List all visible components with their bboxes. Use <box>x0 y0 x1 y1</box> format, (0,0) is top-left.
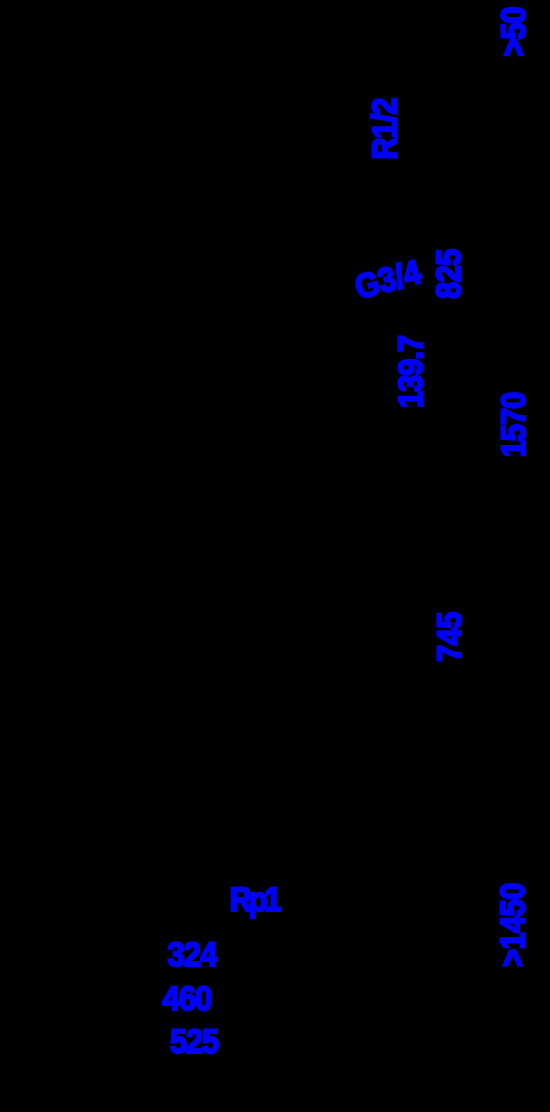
dimension label 825 (vertical) <box>432 249 466 299</box>
dimension label >1450 (vertical, bottom right) <box>496 883 530 967</box>
dimension label R1/2 (vertical) <box>368 98 402 159</box>
dimension label 460 (horizontal) <box>162 982 211 1016</box>
dimension label 139.7 (vertical) <box>394 336 428 408</box>
dimension label >50 (vertical, top right) <box>497 7 531 56</box>
connection label Rp1 (horizontal) <box>229 883 278 917</box>
dimension label 324 (horizontal) <box>167 938 216 972</box>
dimension label 1570 (vertical) <box>497 392 531 456</box>
dimension label 745 (vertical) <box>433 612 467 662</box>
dimension label G3/4 (diagonal) <box>352 255 425 305</box>
dimension label 525 (horizontal) <box>170 1025 218 1059</box>
